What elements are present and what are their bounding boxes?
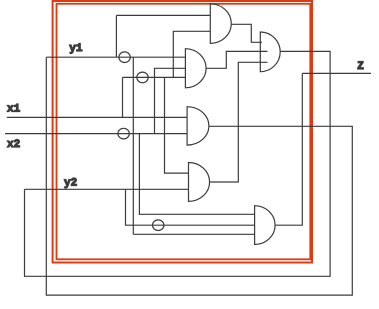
wire U3 output to U2 middle input	[206, 51, 267, 68]
svg-text:Z: Z	[357, 61, 364, 73]
wire x1 riser up	[122, 77, 124, 117]
AND gate U2	[260, 32, 280, 72]
wire y1 riser down to gate U6	[132, 57, 134, 234]
wire y1 top branch to U1 input	[116, 14, 210, 16]
AND gate U3	[185, 49, 206, 88]
wire y1 riser up to gate U1	[115, 15, 117, 57]
wire x1 horizontal input line	[7, 116, 187, 118]
wire U4 output feedback loop to y1	[46, 57, 352, 295]
wire x1 riser to gate U1 lower input	[173, 31, 210, 77]
AND gate U5	[189, 163, 210, 202]
wire x1 riser down to gate U5 top input	[165, 77, 189, 173]
wire U1 output to U2 top input	[231, 24, 262, 42]
svg-text:x2: x2	[7, 139, 20, 151]
wire x2 horizontal input line	[5, 133, 187, 135]
bubble on y1 line	[119, 52, 130, 63]
red boundary inner rectangle	[57, 4, 311, 259]
svg-text:y2: y2	[64, 178, 77, 190]
bubble on x2 line	[118, 128, 129, 139]
wire y1 horizontal	[46, 56, 185, 58]
AND gate U6	[255, 206, 276, 245]
wire y2 riser down to U6 middle input	[126, 189, 255, 225]
wire y1 branch to U6 bottom input	[133, 233, 254, 235]
svg-text:y1: y1	[69, 43, 83, 55]
svg-text:x1: x1	[7, 104, 21, 116]
wire U5 output feedback up to U2 bottom input	[210, 62, 268, 182]
bubble on y2 branch	[153, 220, 164, 231]
AND gate U1	[210, 4, 231, 44]
AND gate U4	[187, 107, 209, 145]
wire U6 output riser to Z	[275, 73, 302, 225]
bubble on x1 upper branch	[137, 72, 148, 83]
wire y2 horizontal	[25, 188, 189, 190]
wire x1 upper branch to U3 bottom input	[123, 76, 186, 78]
wire Z output line	[302, 72, 371, 74]
red boundary outer rectangle	[53, 1, 312, 263]
wire x2 riser up to U3 middle input	[155, 68, 186, 133]
wire x2 riser down to U6 top input	[139, 134, 254, 215]
wire U2 output feedback loop to y2	[25, 51, 331, 276]
